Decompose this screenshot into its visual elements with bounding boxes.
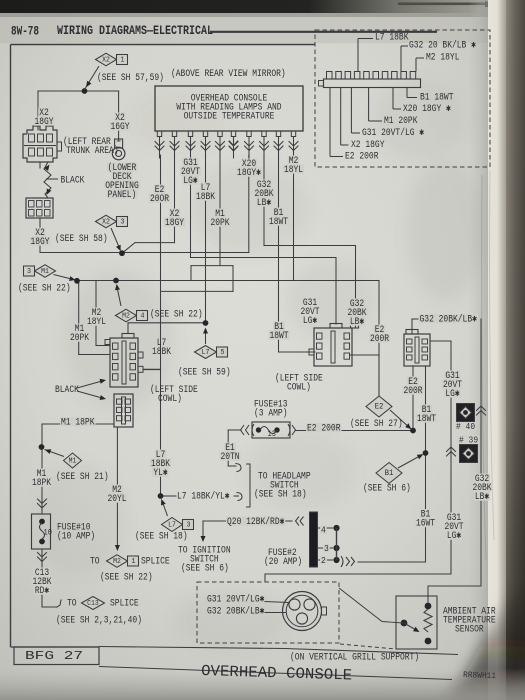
wire M2 18YL console to junction bus [79, 155, 294, 355]
splice arrow M2 1 at bottom [107, 545, 139, 567]
connector C3 cowl right [404, 330, 430, 367]
wire lower trunk connector drop [39, 218, 41, 228]
fuse F13 3A [241, 422, 296, 439]
diagram frame border [11, 45, 316, 648]
svg-text:3: 3 [324, 544, 329, 554]
svg-text:3: 3 [121, 218, 125, 226]
junction above mirror [82, 88, 88, 94]
ground 40 symbol [457, 404, 475, 422]
splice symbol X2 1 [85, 53, 128, 89]
label Q20 12BK/RD [226, 517, 285, 526]
svg-text:OUTSIDE TEMPERATURE: OUTSIDE TEMPERATURE [184, 112, 275, 123]
svg-text:20YL: 20YL [107, 494, 126, 505]
svg-text:18WT: 18WT [417, 414, 436, 425]
wire X2 18GY left drop to trunk connector [39, 162, 41, 168]
label M1 18PK horizontal [60, 417, 96, 426]
wire X2 top bus above-mirror [38, 91, 119, 140]
label M1 18PK vertical [36, 469, 48, 478]
overhead console pin stubs [157, 131, 295, 137]
console pigtail wires with inline connectors [155, 137, 298, 159]
svg-text:18YL: 18YL [284, 165, 303, 176]
svg-text:(10 AMP): (10 AMP) [57, 531, 95, 543]
wire L7 from cowl connector down to junction [143, 369, 161, 496]
connector left side cowl middle [309, 324, 359, 367]
svg-text:RR8WH11: RR8WH11 [463, 670, 496, 681]
svg-text:M2: M2 [113, 558, 121, 566]
junction E2 200R with splice symbol E2 [366, 396, 416, 433]
wire L7 18BK/YL to headlamp-switch connector [163, 495, 239, 497]
wire G31 20VT/LG right drop [265, 341, 456, 582]
svg-text:4: 4 [321, 526, 326, 536]
wire E2 from mid connector to E2 splice symbol [350, 355, 379, 396]
svg-text:TRUNK AREA): TRUNK AREA) [66, 145, 119, 157]
black leader arrows to cowl connectors [77, 379, 106, 400]
svg-text:1: 1 [121, 56, 125, 64]
label G32 20BK/LB at connector [419, 314, 478, 323]
title block overhead console [99, 647, 458, 685]
svg-text:(SEE SH 18): (SEE SH 18) [254, 489, 307, 501]
splice symbol C13 bottom left [82, 597, 105, 610]
headlamp switch inline connector stubs [236, 464, 250, 508]
svg-text:(SEE SH 6): (SEE SH 6) [363, 483, 411, 495]
page header title [11, 24, 213, 39]
svg-text:18PK: 18PK [32, 478, 51, 489]
svg-text:LB✱: LB✱ [475, 492, 489, 503]
label G32 lower right [474, 474, 490, 483]
wire M1 console jog [191, 155, 233, 291]
arrowheads on black jumper [44, 165, 51, 196]
wire G32 20BK/LB right drop to sensor [428, 319, 486, 602]
ground 39 symbol [460, 445, 478, 463]
svg-text:M2 18YL: M2 18YL [426, 53, 460, 64]
svg-text:8W-78: 8W-78 [11, 25, 39, 39]
svg-text:(SEE SH 58): (SEE SH 58) [55, 233, 108, 245]
wire E2 L7 column to cowl connector pin [143, 155, 161, 370]
svg-text:18WT: 18WT [269, 217, 288, 228]
svg-text:200R: 200R [370, 334, 389, 345]
svg-text:YL✱: YL✱ [153, 468, 167, 479]
svg-text:M1 20PK: M1 20PK [384, 116, 418, 127]
svg-text:(SEE SH 18): (SEE SH 18) [135, 531, 188, 543]
wire M2 20YL to splice arrow [116, 427, 118, 549]
svg-text:(SEE SH 22): (SEE SH 22) [18, 283, 71, 295]
svg-text:Q20 12BK/RD✱: Q20 12BK/RD✱ [227, 516, 284, 528]
svg-text:(ABOVE REAR VIEW MIRROR): (ABOVE REAR VIEW MIRROR) [171, 68, 286, 80]
svg-text:LG✱: LG✱ [183, 176, 197, 187]
label E2 200R mid connector [374, 325, 386, 334]
svg-text:18GY: 18GY [30, 237, 49, 248]
label number 39 [458, 436, 479, 444]
svg-text:L7: L7 [168, 521, 176, 529]
junction L7 18BK/YL with splice symbol L7 3 [158, 493, 194, 531]
svg-text:E2: E2 [375, 402, 384, 412]
splice symbol M1 3 left [24, 265, 80, 284]
label C13 12BK RD [34, 568, 50, 577]
svg-text:(ON VERTICAL GRILL SUPPORT): (ON VERTICAL GRILL SUPPORT) [290, 652, 419, 664]
svg-text:18BK: 18BK [152, 347, 171, 358]
round sensor connector face [265, 592, 327, 631]
splice symbol X2 3 [96, 215, 128, 251]
dashed box pin labels top right [345, 33, 476, 163]
label B1 18WT mid [273, 322, 285, 331]
svg-text:C13: C13 [87, 600, 99, 608]
sensor connector projection line [339, 588, 403, 623]
svg-text:1: 1 [132, 558, 136, 566]
wire G31 console to mid cowl connector [191, 155, 337, 324]
svg-text:20PK: 20PK [210, 218, 229, 229]
svg-text:E2 200R: E2 200R [307, 424, 341, 435]
svg-text:20PK: 20PK [70, 333, 89, 344]
svg-text:(SEE SH 6): (SEE SH 6) [181, 563, 229, 575]
svg-text:3: 3 [27, 268, 31, 276]
svg-text:M1 18PK: M1 18PK [61, 418, 95, 429]
label M2 20YL [111, 485, 123, 494]
connector left rear trunk area [23, 126, 62, 162]
overhead console module box [155, 86, 303, 131]
label B1 18WT right [421, 405, 433, 414]
label E2 200R right [407, 377, 419, 386]
wire B1 16WT to fuse 2 [358, 561, 426, 563]
connector C1 left side cowl upper [105, 334, 143, 388]
label B1 16WT [420, 509, 432, 518]
junction M2 bus with splice arrow M2 4 [113, 278, 147, 322]
junction B1 with splice symbol B1 [376, 450, 428, 483]
label X2 18GY upper left [38, 108, 50, 117]
lower deck grommet symbol [112, 139, 125, 160]
svg-text:2: 2 [321, 556, 326, 566]
svg-text:M1: M1 [41, 268, 49, 276]
svg-text:COWL): COWL) [287, 382, 311, 394]
svg-text:LG✱: LG✱ [303, 316, 317, 327]
wire E2 200R fuse 13 output to junction [296, 430, 410, 432]
dashed callout box top right [315, 30, 490, 167]
junction M1 18PK with splice symbol M1 [39, 444, 82, 468]
svg-text:20OR: 20OR [150, 194, 169, 205]
svg-text:WIRING DIAGRAMS—ELECTRICAL: WIRING DIAGRAMS—ELECTRICAL [57, 24, 213, 38]
arrow to ignition switch [201, 536, 206, 542]
svg-text:B1: B1 [385, 468, 394, 478]
svg-text:X2: X2 [102, 218, 110, 226]
svg-text:(SEE SH 57,59): (SEE SH 57,59) [97, 72, 164, 84]
wire G32 console to mid connector [264, 155, 356, 328]
wire L7 console to splice junction and connector tab [128, 155, 206, 334]
console wire labels [149, 156, 304, 230]
svg-text:X20 18GY ✱: X20 18GY ✱ [403, 104, 451, 115]
title block BFG 27 [14, 647, 99, 665]
label M1 20PK mid [74, 324, 86, 333]
fuse F2 20A block [296, 512, 355, 567]
svg-text:16WT: 16WT [416, 519, 435, 530]
svg-text:G31 20VT/LG✱: G31 20VT/LG✱ [207, 594, 264, 606]
wire E1 20TN fuse 13 feed [228, 430, 241, 466]
svg-text:(SEE SH 27): (SEE SH 27) [350, 418, 403, 430]
connector C2 left side cowl lower [114, 394, 133, 427]
svg-text:E2 200R: E2 200R [345, 152, 379, 163]
svg-text:LG✱: LG✱ [447, 531, 461, 542]
svg-text:(SEE SH 2,3,21,40): (SEE SH 2,3,21,40) [56, 615, 142, 627]
svg-text:18WT: 18WT [269, 331, 288, 342]
svg-text:(SEE SH 21): (SEE SH 21) [56, 471, 109, 483]
wire E2 200R junction up to cowl connector 3 [412, 366, 414, 428]
label number 40 [455, 422, 476, 430]
label E1 20TN [224, 443, 236, 452]
label G31 lower right [446, 513, 462, 522]
label G31 right [444, 371, 460, 380]
black twisted jumper between trunk connectors [44, 162, 51, 198]
wire Q20 12BK/RD to fuse 2 [203, 521, 292, 539]
svg-text:B1 18WT: B1 18WT [420, 93, 454, 104]
svg-text:RD✱: RD✱ [35, 586, 49, 597]
svg-text:SPLICE: SPLICE [110, 599, 139, 610]
svg-text:(SEE SH 59): (SEE SH 59) [178, 367, 231, 379]
console 10-way connector strip [319, 72, 421, 88]
wire console pin 6 stub arrow [229, 137, 237, 152]
label G32 mid connector [349, 299, 365, 308]
svg-text:TO: TO [90, 557, 100, 568]
svg-text:4: 4 [141, 312, 145, 320]
wire X2 X20 splice bus [40, 155, 249, 253]
svg-text:18GY: 18GY [34, 117, 53, 128]
svg-text:SPLICE: SPLICE [141, 557, 170, 568]
svg-text:G31 20VT/LG ✱: G31 20VT/LG ✱ [362, 127, 424, 139]
wire B1 18WT right drop [425, 366, 427, 562]
svg-text:13: 13 [268, 430, 277, 439]
wire M1 18PK branch into lower cowl connector [42, 423, 114, 425]
ambient air temperature sensor [396, 596, 437, 649]
svg-text:200R: 200R [403, 386, 422, 397]
wire B1 console to mid connector [279, 155, 316, 352]
label E2 200R on wire [306, 423, 342, 432]
svg-text:18GY✱: 18GY✱ [237, 168, 261, 179]
label X2 16GY [114, 113, 126, 122]
svg-text:# 40: # 40 [456, 422, 475, 432]
svg-text:M1: M1 [69, 457, 77, 465]
wire G32 label hook at cowl connector 3 [412, 319, 419, 334]
svg-text:BLACK: BLACK [55, 385, 79, 396]
svg-text:18BK: 18BK [196, 192, 215, 203]
svg-text:LB✱: LB✱ [350, 317, 364, 328]
svg-text:SENSOR: SENSOR [455, 625, 484, 636]
junction L7 with splice symbol L7 5 [195, 320, 228, 358]
svg-text:18YL: 18YL [87, 317, 106, 328]
svg-text:L7: L7 [202, 349, 210, 357]
svg-text:G32 20BK/LB✱: G32 20BK/LB✱ [207, 606, 264, 618]
svg-text:COWL): COWL) [158, 393, 182, 405]
svg-text:5: 5 [221, 349, 225, 357]
svg-text:PANEL): PANEL) [108, 189, 137, 201]
svg-text:(SEE SH 22): (SEE SH 22) [150, 309, 203, 321]
wire X2 16GY console to junction bus [122, 155, 175, 253]
fuse F10 10A [32, 514, 53, 549]
black label leader [46, 178, 58, 180]
svg-text:# 39: # 39 [459, 436, 478, 446]
svg-text:18GY: 18GY [165, 218, 184, 229]
label X2 18GY lower [34, 228, 46, 237]
svg-text:L7 18BK: L7 18BK [375, 33, 409, 44]
svg-text:16GY: 16GY [110, 122, 129, 133]
svg-text:G32 20BK/LB✱: G32 20BK/LB✱ [420, 314, 477, 326]
svg-text:L7 18BK/YL✱: L7 18BK/YL✱ [177, 491, 230, 503]
svg-text:BLACK: BLACK [61, 176, 85, 187]
svg-text:G32 20 BK/LB ✱: G32 20 BK/LB ✱ [409, 40, 476, 52]
label L7 18BK YL vertical [155, 450, 167, 459]
svg-text:(20 AMP): (20 AMP) [264, 556, 302, 568]
svg-text:X2: X2 [102, 56, 110, 64]
connector lower trunk [26, 198, 53, 218]
label ambient air temperature sensor [443, 607, 496, 636]
svg-text:3: 3 [187, 521, 191, 529]
wire M1 18PK to fuse 10 and C13 splice [38, 424, 62, 607]
svg-text:M2: M2 [122, 312, 130, 320]
sensor connector dashed callout box [197, 582, 339, 643]
svg-text:BFG 27: BFG 27 [25, 649, 83, 663]
label lower deck opening panel [107, 163, 138, 172]
svg-text:20TN: 20TN [220, 452, 239, 463]
svg-text:X2 18GY: X2 18GY [351, 140, 385, 151]
junction X2 bus [119, 250, 125, 256]
header rule [210, 31, 437, 33]
fuse 2 pin numbers [320, 526, 327, 534]
sensor mount dashed leader [340, 644, 396, 649]
labels inside sensor callout [207, 594, 264, 618]
svg-text:(SEE SH 22): (SEE SH 22) [100, 572, 153, 584]
svg-text:LG✱: LG✱ [445, 389, 459, 400]
label M2 18YL mid [91, 308, 103, 317]
svg-text:(3 AMP): (3 AMP) [254, 408, 288, 420]
svg-text:LB✱: LB✱ [257, 198, 271, 209]
connector strip pin leaders [330, 39, 424, 157]
svg-text:TO: TO [67, 599, 77, 610]
wire E2 branch bus to splice [77, 281, 379, 397]
svg-text:10: 10 [44, 528, 53, 537]
